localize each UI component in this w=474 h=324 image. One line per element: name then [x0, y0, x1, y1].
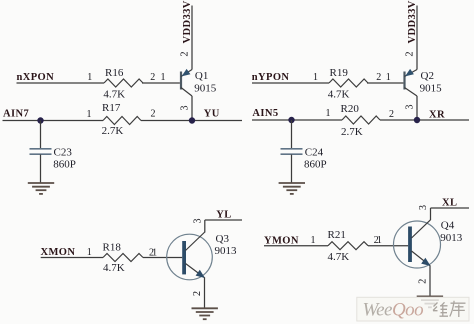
svg-text:2.7K: 2.7K	[102, 125, 124, 137]
node junction Q1 collector / YU	[189, 117, 195, 123]
svg-text:YMON: YMON	[264, 236, 299, 247]
svg-text:1: 1	[87, 247, 92, 258]
node junction Q2 collector / XR	[414, 117, 420, 123]
svg-text:9015: 9015	[420, 83, 443, 95]
wire Q1 collector down	[191, 96, 193, 121]
svg-text:2: 2	[192, 291, 203, 296]
wire R17 to YU	[141, 120, 242, 122]
wire nYPON lead	[252, 82, 329, 84]
wire AIN7 lead	[3, 120, 104, 122]
svg-text:2: 2	[151, 109, 156, 120]
node junction AIN7/C23	[37, 117, 43, 123]
wire AIN5 node to C24	[291, 120, 293, 148]
wire Q3 collector up	[204, 220, 206, 233]
svg-text:4.7K: 4.7K	[328, 251, 350, 263]
ground (C24)	[279, 183, 305, 194]
ground (Q4 emitter)	[417, 296, 443, 307]
wire C23 to ground	[40, 155, 42, 184]
svg-text:2: 2	[418, 279, 429, 284]
resistor R20	[341, 103, 381, 138]
svg-text:4.7K: 4.7K	[103, 88, 125, 100]
svg-text:AIN7: AIN7	[3, 109, 29, 120]
svg-text:2.7K: 2.7K	[341, 126, 363, 138]
wire XMON lead	[41, 257, 103, 259]
svg-text:2: 2	[405, 52, 416, 57]
wire AIN5 lead	[252, 119, 342, 121]
power VDD33V (left)	[182, 0, 193, 69]
svg-text:XR: XR	[429, 110, 445, 121]
wire YL	[205, 219, 242, 221]
svg-text:VDD33V: VDD33V	[407, 0, 418, 43]
resistor R17	[102, 102, 141, 137]
wire XL	[431, 207, 470, 209]
svg-text:XMON: XMON	[41, 247, 76, 258]
svg-text:4.7K: 4.7K	[103, 262, 125, 274]
svg-text:1: 1	[87, 109, 92, 120]
wire R20 to XR	[380, 119, 469, 121]
wire C24 to ground	[291, 155, 293, 184]
svg-text:3: 3	[180, 106, 191, 111]
wire R16 to Q1 base	[142, 82, 180, 84]
svg-text:R17: R17	[102, 102, 121, 114]
capacitor C23 860P	[30, 147, 76, 171]
svg-text:2: 2	[180, 52, 191, 57]
svg-text:R19: R19	[330, 67, 349, 79]
svg-text:1: 1	[87, 72, 92, 83]
svg-text:3: 3	[405, 105, 416, 110]
svg-text:3: 3	[418, 205, 429, 210]
svg-text:1: 1	[152, 247, 157, 258]
svg-text:2: 2	[150, 72, 155, 83]
svg-text:Q4: Q4	[441, 219, 455, 231]
svg-text:R18: R18	[103, 241, 122, 253]
capacitor C24 860P	[281, 147, 327, 171]
wire Q4 collector up	[430, 208, 432, 220]
watermark box WeeQoo	[357, 297, 469, 321]
svg-text:C24: C24	[305, 147, 324, 159]
transistor Q4 9013 NPN	[394, 219, 463, 268]
svg-text:nYPON: nYPON	[252, 72, 290, 83]
ground (C23)	[28, 183, 54, 194]
wire R18 to Q3 base	[143, 257, 182, 259]
wire nXPON lead	[17, 82, 105, 84]
wire YMON lead	[264, 245, 328, 247]
resistor R18	[103, 241, 144, 274]
power VDD33V (right)	[407, 0, 418, 69]
ground (Q3 emitter)	[192, 308, 218, 319]
wire Q2 collector down	[416, 96, 418, 120]
svg-text:nXPON: nXPON	[17, 72, 55, 83]
resistor R21	[328, 229, 369, 263]
wire Q3 emitter down	[204, 277, 206, 308]
svg-text:R21: R21	[328, 229, 346, 241]
svg-text:AIN5: AIN5	[252, 108, 278, 119]
svg-text:YU: YU	[204, 109, 220, 120]
svg-text:4.7K: 4.7K	[328, 89, 350, 101]
svg-text:1: 1	[161, 72, 166, 83]
transistor Q2 9015 PNP	[405, 69, 443, 96]
svg-text:9013: 9013	[215, 245, 238, 257]
wire R21 to Q4 base	[368, 245, 408, 247]
svg-text:860P: 860P	[53, 159, 76, 171]
svg-text:XL: XL	[442, 197, 457, 208]
svg-text:VDD33V: VDD33V	[182, 0, 193, 43]
svg-text:9015: 9015	[194, 83, 217, 95]
svg-text:WeeQoo: WeeQoo	[363, 300, 424, 321]
wire AIN7 node to C23	[40, 121, 42, 149]
svg-text:1: 1	[386, 72, 391, 83]
svg-text:C23: C23	[54, 147, 73, 159]
svg-text:1: 1	[313, 72, 318, 83]
svg-text:R20: R20	[341, 103, 360, 115]
resistor R19	[328, 67, 368, 101]
svg-text:YL: YL	[216, 210, 231, 221]
svg-text:1: 1	[326, 108, 331, 119]
svg-text:860P: 860P	[304, 159, 327, 171]
svg-text:Q3: Q3	[216, 233, 230, 245]
resistor R16	[103, 67, 143, 100]
svg-text:Q1: Q1	[195, 70, 208, 82]
svg-text:Q2: Q2	[421, 70, 434, 82]
node junction AIN5/C24	[288, 117, 294, 123]
svg-text:1: 1	[377, 235, 382, 246]
wire Q4 emitter down	[429, 265, 431, 296]
svg-text:9013: 9013	[440, 232, 463, 244]
svg-text:1: 1	[311, 235, 316, 246]
transistor Q3 9013 NPN	[167, 232, 237, 280]
transistor Q1 9015 PNP	[181, 69, 217, 96]
svg-text:2: 2	[376, 72, 381, 83]
svg-text:R16: R16	[105, 67, 124, 79]
svg-text:2: 2	[389, 109, 394, 120]
wire R19 to Q2 base	[367, 82, 403, 84]
svg-text:3: 3	[192, 219, 203, 224]
